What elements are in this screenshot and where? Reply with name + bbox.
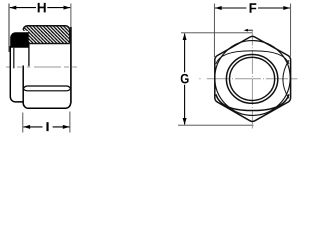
dimension F line right segment bbox=[258, 7, 290, 9]
counterbore step line bbox=[28, 44, 30, 67]
dimension H extension line right bbox=[70, 4, 72, 41]
horizontal centerline of hex view bbox=[199, 78, 297, 80]
dimension I extension line right bbox=[69, 112, 71, 133]
nut bottom silhouette with rounded corners bbox=[23, 103, 70, 108]
dimension G arrow up bbox=[183, 33, 187, 40]
dimension I arrow left bbox=[23, 125, 30, 129]
chamfer arc on right flat bbox=[283, 60, 289, 98]
dimension G line upper segment bbox=[184, 34, 186, 73]
dimension H arrow left bbox=[10, 6, 17, 10]
dimension H line right segment bbox=[47, 7, 70, 9]
nylon insert (black) with domed top-left corner bbox=[10, 32, 29, 48]
dimension I arrow right bbox=[63, 125, 70, 129]
centerline (axis) of side view bbox=[6, 66, 77, 68]
hexagon outline bbox=[215, 36, 291, 121]
dimension H label bbox=[38, 3, 46, 12]
dome circle (rounded collar seen face-on, tangent to flats) bbox=[215, 41, 290, 116]
dimension I extension line left bbox=[22, 113, 24, 133]
nut body section outline top edge bbox=[23, 26, 70, 44]
dimension F extension line left bbox=[213, 4, 215, 58]
dimension G extension line bottom bbox=[178, 124, 254, 126]
dimension I line right segment bbox=[53, 126, 70, 128]
dimension H arrow right bbox=[64, 6, 71, 10]
nylon insert outer circle bbox=[226, 55, 277, 104]
dimension F label bbox=[250, 3, 257, 12]
nut left face line (hex body, lower half) bbox=[22, 66, 24, 104]
dimension H extension line left bbox=[8, 4, 10, 53]
dimension G arrow down bbox=[183, 118, 187, 125]
dimension H line left segment bbox=[10, 7, 36, 9]
leader arrow at top vertex bbox=[247, 29, 252, 31]
hex flats divider lower line with end arcs bbox=[23, 89, 70, 91]
dimension F line left segment bbox=[215, 7, 246, 9]
dimension F arrow right bbox=[283, 6, 290, 10]
bore line (bottom edge of hatched section) bbox=[28, 43, 70, 45]
thread minor circle bbox=[230, 57, 275, 100]
dimension I label bbox=[46, 122, 48, 131]
dimension G line lower segment bbox=[184, 85, 186, 125]
chamfer arch below top corners bbox=[216, 51, 289, 64]
nylon insert inner bore edge (below section) bbox=[13, 48, 15, 69]
dimension G label bbox=[181, 74, 189, 84]
nylon collar outer silhouette (lower half, rounded end) bbox=[10, 46, 23, 102]
dimension F arrow left bbox=[215, 6, 222, 10]
nut body hatched section (steel, upper half) bbox=[23, 26, 70, 43]
dimension G extension line top bbox=[181, 32, 253, 34]
dimension I line left segment bbox=[23, 126, 42, 128]
vertical centerline of hex view bbox=[251, 30, 253, 129]
hex flats divider upper line with end arcs bbox=[23, 86, 70, 89]
nut right face line (bottom of nut) bbox=[70, 27, 72, 103]
dimension F extension line right bbox=[290, 4, 292, 57]
chamfer arch above bottom vertex bbox=[216, 94, 289, 110]
